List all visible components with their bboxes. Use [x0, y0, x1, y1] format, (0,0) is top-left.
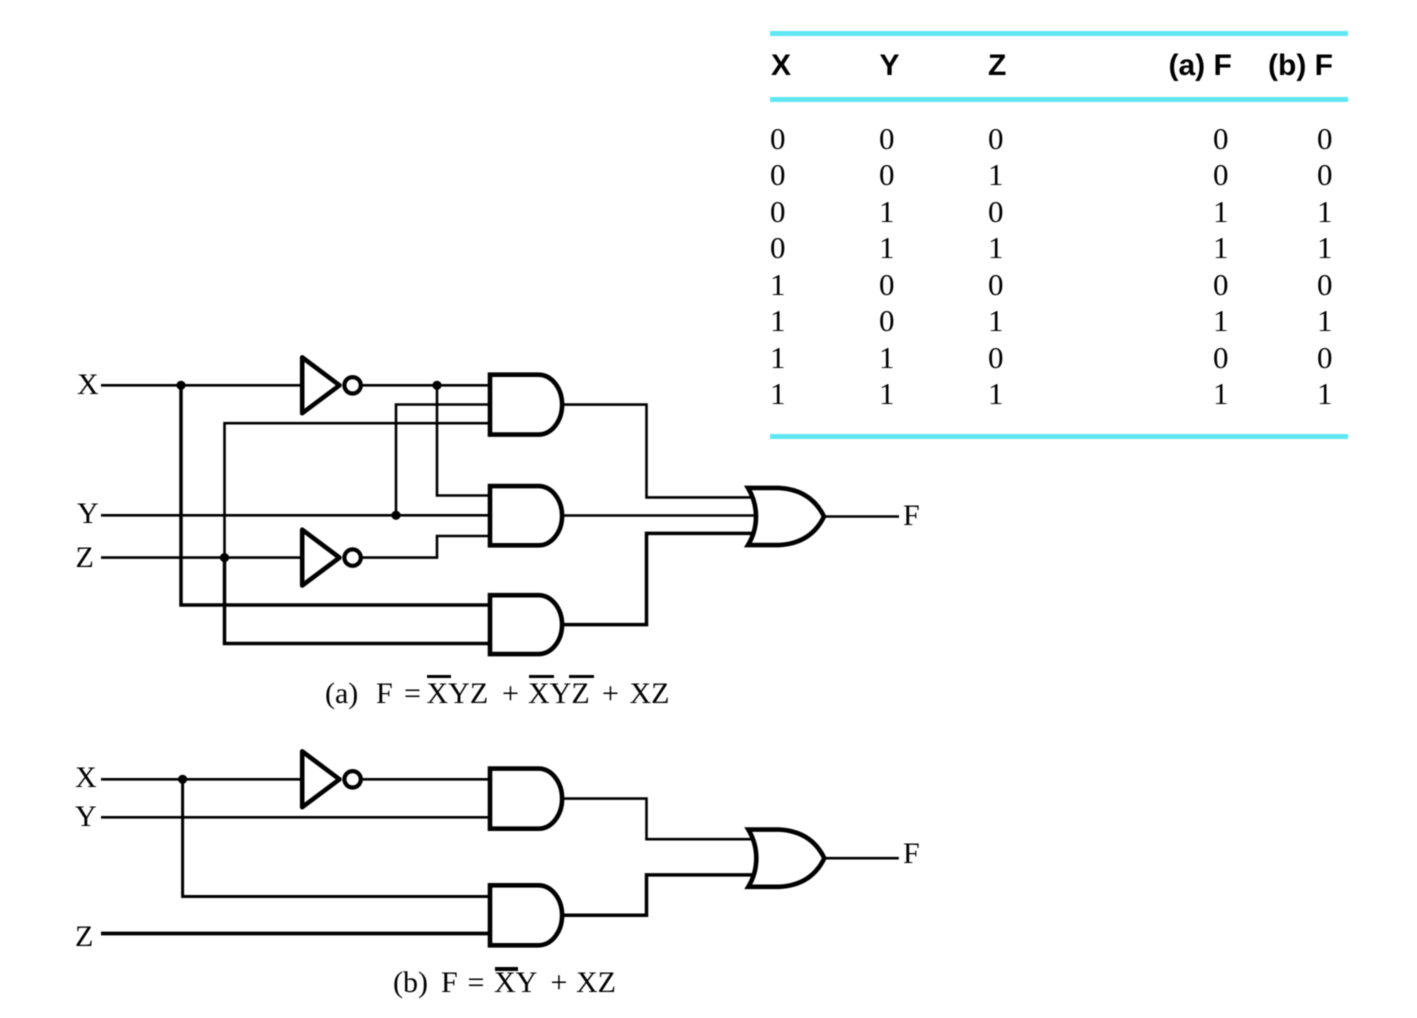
wire Y input (circuit a) — [101, 514, 489, 517]
junction dot on X wire (circuit b) — [178, 775, 187, 784]
input label Z (circuit b) — [75, 922, 93, 952]
wire AND A1 output to OR O1 — [562, 405, 754, 498]
wire X down to AND A5 — [183, 779, 489, 896]
wire Y up to AND A1 — [396, 405, 489, 516]
truth table header Y — [880, 51, 900, 81]
wire Z input (circuit a) — [101, 556, 302, 559]
junction dot on Z wire (circuit a) — [220, 553, 229, 562]
truth table bottom rule — [770, 434, 1348, 439]
AND gate A4 — [490, 769, 562, 829]
wire U1 output to AND A1 — [362, 384, 489, 387]
wire X down to AND A3 — [181, 385, 489, 605]
truth table top rule — [770, 31, 1348, 36]
OR gate O2 — [748, 830, 824, 887]
wire X input (circuit b) — [101, 778, 302, 781]
caption (a) text — [325, 679, 358, 709]
truth table column (a) F values — [1213, 121, 1229, 412]
wire AND A3 output to OR O1 — [562, 533, 754, 624]
wire Z input (circuit b) — [101, 932, 489, 936]
wire X-bar down to AND A2 — [437, 385, 489, 495]
truth table header Z — [988, 51, 1006, 81]
inverter U1 (X) — [302, 357, 361, 413]
OR gate O1 — [748, 488, 824, 545]
truth table column X values — [770, 121, 786, 412]
wire U3 output to AND A4 — [362, 778, 489, 781]
junction dot on X-bar node — [432, 381, 441, 390]
input label X (circuit a) — [77, 370, 99, 400]
truth table header (a) F — [1169, 51, 1232, 81]
wire X input (circuit a) — [101, 384, 302, 387]
inverter U3 (X, circuit b) — [302, 751, 361, 807]
input label Y (circuit a) — [77, 499, 99, 529]
inverter U2 (Z) — [302, 530, 361, 586]
output label F (circuit a) — [903, 501, 920, 531]
truth table column Y values — [879, 121, 895, 412]
truth table header (b) F — [1268, 51, 1333, 81]
input label Y (circuit b) — [75, 802, 97, 832]
AND gate A5 — [490, 885, 562, 945]
wire AND A5 output to OR O2 — [562, 875, 754, 915]
wire Z up to AND A1 — [225, 423, 490, 557]
wire OR O1 output to F — [824, 515, 899, 518]
wire Z down to AND A3 — [225, 558, 490, 644]
truth table header X — [771, 51, 791, 81]
wire AND A2 output to OR O1 — [562, 514, 757, 517]
wire OR O2 output to F (circuit b) — [824, 857, 899, 860]
AND gate A3 — [490, 595, 562, 654]
AND gate A1 — [490, 375, 562, 435]
wire AND A4 output to OR O2 — [562, 799, 754, 840]
output label F (circuit b) — [903, 839, 920, 869]
wire Y input (circuit b) — [101, 816, 489, 819]
AND gate A2 — [490, 486, 562, 545]
overbar on X term2 caption a — [529, 675, 554, 678]
input label Z (circuit a) — [76, 543, 94, 573]
overbar on Z term2 caption a — [569, 675, 594, 678]
truth table column (b) F values — [1317, 121, 1333, 412]
junction dot on Y wire (circuit a) — [391, 511, 400, 520]
wire U2 output up to AND A2 — [362, 536, 489, 558]
input label X (circuit b) — [75, 763, 97, 793]
truth table middle rule — [770, 97, 1348, 102]
overbar on X caption b — [495, 967, 518, 970]
caption (b) text — [393, 968, 428, 998]
junction dot on X wire (circuit a) — [176, 381, 185, 390]
truth table column Z values — [988, 121, 1004, 412]
overbar on X term1 caption a — [427, 675, 451, 678]
